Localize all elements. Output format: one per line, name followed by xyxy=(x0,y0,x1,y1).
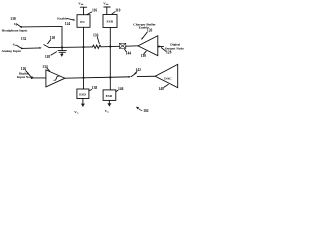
label 130 xyxy=(10,17,16,21)
svg-text:Analog Input: Analog Input xyxy=(2,49,22,53)
capacitor 118 xyxy=(45,47,67,58)
svg-text:Sb: Sb xyxy=(13,43,17,48)
svg-text:Vss: Vss xyxy=(74,110,78,115)
wire: rail from PU down to ESD box1 xyxy=(83,27,85,89)
wire: output stub xyxy=(158,45,164,47)
Analog Input label xyxy=(2,49,22,53)
Digital Input Node label xyxy=(17,72,34,80)
schmitt buffer (input) xyxy=(46,70,65,87)
svg-text:ESD: ESD xyxy=(106,94,113,98)
svg-text:PU: PU xyxy=(80,20,85,24)
svg-text:126: 126 xyxy=(147,29,153,33)
svg-text:138: 138 xyxy=(92,86,98,90)
node: rail2-line2 xyxy=(109,46,111,48)
node: rail2-digital line xyxy=(109,76,111,78)
svg-text:Vdd: Vdd xyxy=(103,1,109,6)
label 132 xyxy=(21,37,27,41)
label 134 xyxy=(42,65,50,71)
ESD box (top) xyxy=(103,15,117,28)
node: rail1-digital line xyxy=(82,77,84,79)
Enable arrow into PU xyxy=(57,16,75,26)
svg-text:146: 146 xyxy=(118,87,124,91)
Charger Buffer Enable label xyxy=(133,22,156,40)
label 116 xyxy=(87,9,97,15)
label 146 xyxy=(116,87,123,92)
svg-text:110: 110 xyxy=(115,8,120,12)
switch 142 xyxy=(131,68,155,77)
pull-up box PU xyxy=(77,15,90,28)
svg-text:102: 102 xyxy=(143,109,149,113)
svg-text:Vdd: Vdd xyxy=(78,2,84,7)
switch 120 xyxy=(44,36,56,47)
svg-text:116: 116 xyxy=(92,9,97,13)
label 126 input node xyxy=(21,67,31,76)
Digital Output Node label xyxy=(161,43,184,55)
switch Sa xyxy=(14,22,22,28)
DAC xyxy=(155,64,178,91)
svg-text:136: 136 xyxy=(93,33,99,37)
wire: line2 resistor to pad xyxy=(101,45,120,47)
svg-text:Vss: Vss xyxy=(105,109,109,114)
resistor 136 xyxy=(93,33,101,48)
ESD box2 (bottom-right) xyxy=(103,90,116,101)
node: digital output node xyxy=(158,46,160,48)
label 110 xyxy=(112,8,121,14)
svg-text:ESD: ESD xyxy=(79,93,86,97)
switch Sb xyxy=(13,43,23,50)
svg-text:132: 132 xyxy=(21,37,27,41)
wire: analog line with arrowhead xyxy=(22,47,42,49)
Headphone Input label xyxy=(2,29,28,33)
wire: input node to schmitt xyxy=(32,77,46,79)
wire: headphone line 1 xyxy=(21,25,62,28)
Vdd supply (right) xyxy=(103,1,110,14)
wire: vertical from line1 to line2 xyxy=(61,26,63,47)
svg-text:118: 118 xyxy=(45,55,50,59)
svg-text:128: 128 xyxy=(166,51,172,55)
node: line1/line2 junction xyxy=(61,46,63,48)
svg-text:Enable: Enable xyxy=(57,16,68,20)
annotation 102 xyxy=(136,107,149,113)
ESD box1 (bottom-left) xyxy=(77,89,89,99)
label 138 xyxy=(89,86,97,90)
svg-text:DAC: DAC xyxy=(164,76,172,80)
op-amp U1 charger buffer xyxy=(138,36,158,58)
svg-text:Headphone Input: Headphone Input xyxy=(2,29,28,33)
wire: digital line to switch 142 xyxy=(65,76,131,78)
Vdd supply (left) xyxy=(78,2,86,15)
svg-text:140: 140 xyxy=(158,87,164,91)
wire: rail from ESD top down to ESD box2 xyxy=(109,28,111,90)
node: rail1-line2 xyxy=(82,46,84,48)
ground Vss (left) xyxy=(74,99,85,115)
wire: pad to buffer apex xyxy=(126,45,139,47)
ground Vss (right) xyxy=(105,100,112,113)
svg-text:130: 130 xyxy=(10,17,16,21)
svg-text:144: 144 xyxy=(126,52,132,56)
svg-text:ESD: ESD xyxy=(107,20,114,24)
node: digital input node xyxy=(31,77,33,79)
svg-text:124: 124 xyxy=(65,22,71,26)
pad symbol 144 (crossed box) xyxy=(119,43,131,55)
wire: line 2 (analog to buffer) xyxy=(49,46,92,49)
